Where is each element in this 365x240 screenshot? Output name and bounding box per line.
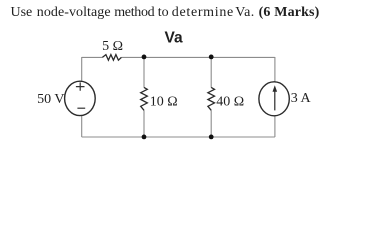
svg-text:Usenode-voltagemethodtodetermi: Usenode-voltagemethodtodetermineVa.(6 Ma… [11, 5, 320, 20]
junction dot node Va (top left) [142, 55, 147, 60]
voltage source V1 plus sign [76, 82, 85, 90]
wire: right rail upper (top wire to I source) [274, 57, 276, 82]
junction dot top right [209, 55, 214, 60]
resistor R2 10 ohm zigzag [141, 87, 148, 110]
resistor R3 40 ohm zigzag [208, 87, 215, 110]
junction dot bottom left [142, 135, 147, 140]
wire: top-left segment (corner to R1) [82, 56, 103, 58]
wire: left rail lower (V source to bottom wire) [81, 116, 83, 137]
resistor R1 5 ohm zigzag [102, 55, 121, 61]
wire: right rail lower (I source to bottom wire) [274, 116, 276, 137]
voltage source V1 minus sign [77, 107, 85, 109]
wire: top segment (R1 to right corner) [121, 56, 275, 58]
wire: bottom wire [82, 136, 275, 138]
wire: left rail upper (top wire to V source) [81, 57, 83, 82]
wire: R3 bottom lead [210, 110, 212, 137]
current source I1 circle [259, 82, 289, 116]
svg-text:5 Ω: 5 Ω [102, 39, 123, 54]
svg-text:50 V: 50 V [37, 92, 64, 107]
svg-text:10 Ω: 10 Ω [150, 94, 178, 109]
wire: R3 top lead [210, 57, 212, 87]
wire: node Va to R2 top lead [143, 57, 145, 87]
svg-text:3 A: 3 A [291, 91, 312, 106]
svg-text:40 Ω: 40 Ω [216, 94, 244, 109]
junction dot bottom right [209, 135, 214, 140]
svg-text:Va: Va [165, 29, 183, 46]
current source I1 arrow [274, 91, 276, 111]
voltage source V1 circle [65, 81, 96, 115]
wire: R2 bottom lead [143, 110, 145, 137]
